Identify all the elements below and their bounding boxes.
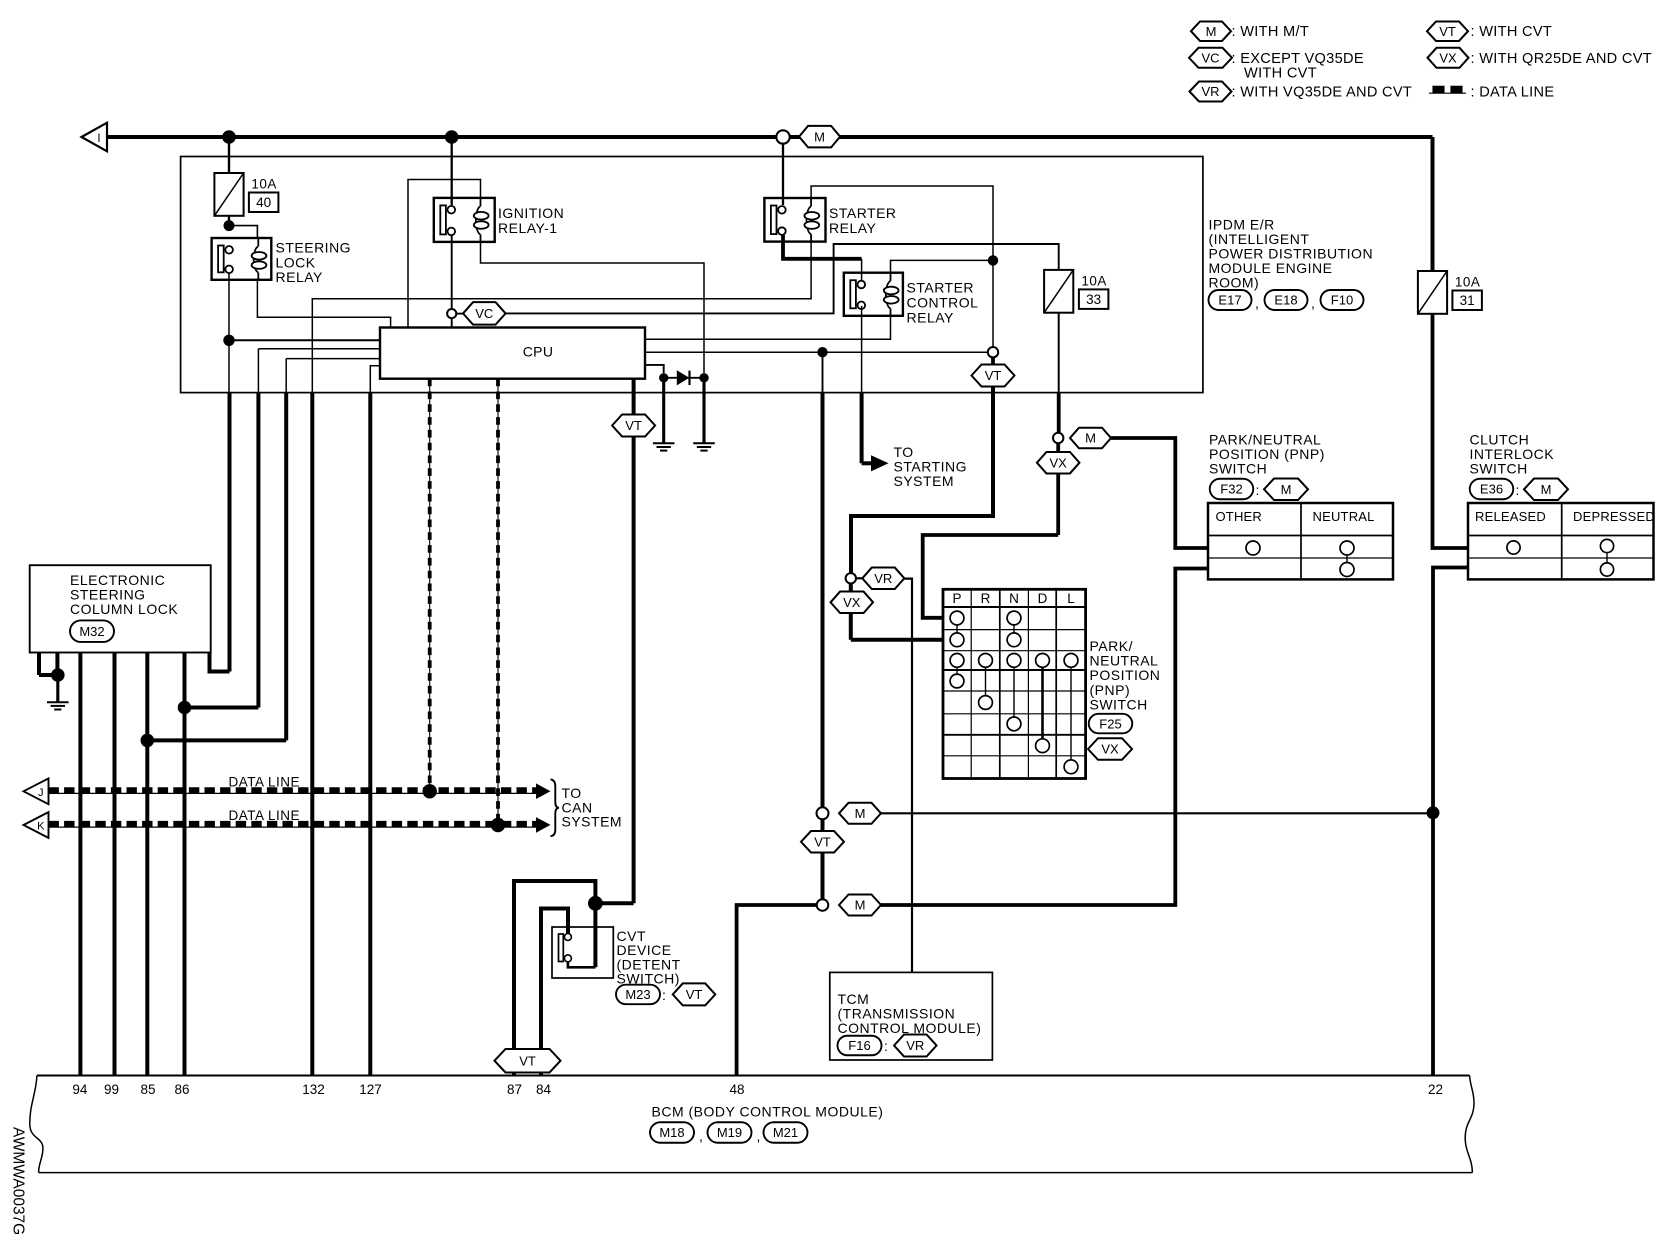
contact circle OTHER [1246,541,1260,555]
svg-text:84: 84 [536,1082,552,1097]
svg-text:RELAY: RELAY [276,269,324,285]
node: connector circle at y=905 [817,899,829,911]
wire: ESCL pin to BCM 86 [183,653,187,1076]
wire: ESCL pin to BCM 94 [78,653,82,1076]
PNP grid contact circles column P [950,611,964,625]
junction on clutch line [1427,806,1440,819]
junction on bus at fuse 40 [222,130,236,144]
wire: node A to CPU [229,339,380,341]
junction node A (SLR output / CPU) [223,335,234,346]
wire: CAN data line K (dashed) from CPU [497,379,499,825]
svg-text:M32: M32 [79,624,104,639]
svg-text:M: M [1085,431,1096,446]
PNP grid contact circles column D [1036,654,1050,668]
connector E36 [1470,479,1514,500]
svg-text:94: 94 [72,1082,88,1097]
svg-text:F10: F10 [1331,293,1353,308]
svg-text:M: M [855,806,866,821]
junction on 352 line (BCM 48 branch) [817,347,827,357]
svg-text:M18: M18 [659,1125,684,1140]
starter relay box [764,198,825,242]
wire: CPU to SCR coil bottom [645,316,891,339]
junction on K data line [491,818,505,832]
svg-text:LOCK: LOCK [276,254,316,270]
node: VT connector circle [988,347,998,357]
ground at ESCL [47,701,69,703]
ignition relay-1 contact bar [440,205,446,234]
wire: starter relay feed [782,144,784,206]
svg-text:M21: M21 [773,1125,798,1140]
wire: ESCL pin to BCM 99 [113,653,117,1076]
svg-text:33: 33 [1086,292,1101,307]
wire: CAN data line J [49,792,536,794]
svg-text:F16: F16 [848,1038,870,1053]
contact circles NEUTRAL [1340,541,1354,555]
svg-text:VT: VT [625,418,642,433]
svg-text:RELEASED: RELEASED [1475,509,1546,524]
ground at diode cathode [693,442,715,444]
svg-text:,: , [1255,295,1259,311]
svg-text:132: 132 [302,1082,325,1097]
wire: to PNP grid row 2 [851,638,943,642]
svg-text:DATA LINE: DATA LINE [229,808,301,823]
wire: M line y=905 to PNP table row 3 [881,569,1208,906]
svg-text:BCM (BODY CONTROL MODULE): BCM (BODY CONTROL MODULE) [652,1104,884,1120]
wire: node A down inside IPDM [228,340,230,392]
wire: starter relay coil bottom to BCM 132 line [312,242,811,393]
svg-text:VT: VT [985,368,1002,383]
svg-text:87: 87 [507,1082,522,1097]
connector M18 [650,1122,694,1143]
brace TO CAN SYSTEM [551,779,560,836]
svg-text:N: N [1009,591,1019,606]
svg-text:VX: VX [1050,455,1068,470]
wire: VT line from CPU bottom [632,379,636,415]
svg-text:R: R [981,591,991,606]
PNP grid contact circles column L [1064,654,1078,668]
TCM box [830,972,993,1060]
svg-text:VR: VR [874,571,892,586]
fuse 33 10A [1044,270,1073,313]
wire: branch from CPU 352 to BCM 48 chain [822,352,824,392]
connector F16 [838,1036,882,1056]
junction node CVT/VT [588,896,603,911]
wire: branch to CPU via x=258 [185,706,259,710]
tag VT for M23 [673,983,716,1005]
tag VR [862,568,904,590]
svg-text:I: I [97,133,100,145]
wire: junction up-left to BCM pin 87 [514,881,595,1076]
node: bus connector circle at starter relay [776,130,789,143]
svg-text:(PNP): (PNP) [1090,682,1131,698]
node: VC connector circle [447,309,456,318]
svg-text:WITH CVT: WITH CVT [1244,65,1317,81]
tag M branch to PNP switch [1070,428,1111,449]
svg-text:: WITH VQ35DE AND CVT: : WITH VQ35DE AND CVT [1232,85,1413,101]
wire: SCR contact down (to starting system) [861,306,863,393]
steering lock relay contact pins [225,246,233,254]
wire: clutch switch depressed to BCM 22 [1433,568,1468,1076]
svg-text:ELECTRONIC: ELECTRONIC [70,572,165,588]
wire: CPU left pin y=349 to BCM 86 branch [258,348,380,350]
PNP switch grid table [943,589,1086,778]
tag VX on fuse 33 line [1037,452,1080,474]
legend: VT = WITH CVT [1427,21,1468,41]
svg-text:M: M [1206,24,1217,39]
svg-text:SYSTEM: SYSTEM [894,473,955,489]
svg-text:127: 127 [359,1082,382,1097]
svg-text:E18: E18 [1274,293,1297,308]
starter relay coil [810,198,812,206]
wire: to ground [56,675,59,702]
svg-text:86: 86 [174,1082,189,1097]
fuse 40 10A [214,173,243,216]
svg-text:22: 22 [1428,1082,1443,1097]
svg-text:NEUTRAL: NEUTRAL [1090,653,1159,669]
svg-text:48: 48 [729,1082,744,1097]
wire: SLR output down to ESCL elbow [228,393,232,672]
tag VT at y=841 [821,819,825,831]
wire: fuse 40 to junction [228,216,230,226]
svg-text:SWITCH: SWITCH [1470,461,1528,477]
junction on BCM86 wire [178,701,192,715]
legend: M = WITH M/T [1191,21,1231,41]
node J arrow (CAN-L) [24,778,49,804]
svg-text:VC: VC [475,306,493,321]
wire: elbow to PNP grid row 1 [923,535,1058,618]
wire: fuse 33 down to connector circle [1058,313,1060,393]
wire: BCM 132 line [310,393,314,1076]
connector E17 [1209,290,1252,310]
svg-text:E36: E36 [1480,482,1503,497]
svg-text:CPU: CPU [523,344,553,360]
steering lock relay coil [257,238,259,246]
svg-text:RELAY: RELAY [829,220,877,236]
svg-text:STEERING: STEERING [70,587,146,603]
starter control relay contact bar [850,280,856,308]
wire: CAN data line K [49,826,536,828]
svg-text:M: M [814,129,825,144]
svg-text:SWITCH: SWITCH [1209,461,1267,477]
connector M21 [764,1122,808,1143]
wide tag VT over pins 87/84 [495,1049,561,1073]
wire: bus right drop to fuse 31 [1431,137,1435,271]
svg-text:,: , [757,1128,761,1144]
wire: CPU left pin y=359 to BCM 85 branch [286,358,380,360]
svg-text:DEPRESSED: DEPRESSED [1573,509,1655,524]
svg-text:40: 40 [256,195,271,210]
svg-text:DATA LINE: DATA LINE [229,774,301,789]
contact circle RELEASED [1507,541,1520,554]
starter control relay coil [890,273,892,281]
svg-text::: : [1256,482,1260,498]
wire: BCM pin 84 to CVT detent switch [541,909,568,1076]
svg-text:SYSTEM: SYSTEM [562,814,623,830]
legend: VC = EXCEPT VQ35DE WITH CVT [1189,48,1232,68]
wire: below VT tag to M node y=905 [821,853,825,900]
svg-text:VT: VT [814,834,831,849]
starter control relay box [844,273,903,316]
svg-text:VR: VR [1201,84,1219,99]
svg-text:CONTROL: CONTROL [907,295,979,311]
svg-text:F32: F32 [1220,482,1242,497]
wire: bus to ignition relay [451,137,453,205]
PNP grid contact circles column N [1007,611,1021,625]
svg-text:M19: M19 [717,1125,742,1140]
svg-text:PARK/: PARK/ [1090,638,1133,654]
wire: VR node down through VX tag to PNP grid row 2 [849,584,853,640]
wire: bus to fuse 40 [228,137,230,173]
tag VT below circle [972,365,1015,387]
wire: ignition relay contact to VC node [451,235,453,327]
ignition relay-1 coil [480,198,482,206]
node: connector circle M branch (y=813) [817,807,829,819]
connector F32 [1210,479,1254,500]
PNP grid contact circles column R [979,654,993,668]
junction on BCM85 wire [141,734,155,748]
wire: TO STARTING SYSTEM [860,393,864,464]
connector E18 [1265,290,1308,310]
svg-text:VX: VX [1439,50,1457,65]
steering lock relay box [212,238,272,280]
wire: CPU to diode anode [645,365,664,373]
svg-text:VR: VR [906,1038,924,1053]
svg-text:POSITION: POSITION [1090,667,1161,683]
wire: circle y=905 left and down to BCM pin 48 [737,905,817,1076]
starter relay contact bar [771,206,777,235]
starter relay contact pins [778,206,786,214]
wire: VC circle to tag [456,313,463,315]
wire: M branch to PNP table row 2 [1111,438,1208,548]
tag VR for TCM [894,1035,937,1057]
svg-text:99: 99 [104,1082,119,1097]
wire: ignition relay coil to CPU top [408,180,481,328]
clutch interlock switch table [1468,503,1654,579]
tag VX on VR node line [831,592,874,614]
ELECTRONIC STEERING COLUMN LOCK box M32 [30,565,211,652]
svg-text:L: L [1067,591,1075,606]
diode D1 [664,377,704,379]
svg-text:SWITCH: SWITCH [1090,696,1148,712]
contact circles DEPRESSED [1600,539,1613,552]
svg-text:J: J [38,787,44,799]
wire: ESCL pin to BCM 85 [145,653,149,1076]
svg-text:RELAY: RELAY [907,310,955,326]
tag VT below CPU [612,415,655,437]
svg-text:VX: VX [843,595,861,610]
svg-text:VT: VT [686,987,703,1002]
svg-text:: WITH QR25DE AND CVT: : WITH QR25DE AND CVT [1471,51,1652,67]
starter control relay contact pins [858,281,866,289]
wire: diode anode to ground [662,378,665,444]
IPDM E/R enclosure box [181,157,1203,393]
legend: VX = WITH QR25DE AND CVT [1428,48,1469,68]
svg-text:E17: E17 [1218,293,1241,308]
svg-text:STARTER: STARTER [829,205,897,221]
svg-text:K: K [37,821,45,833]
detent switch contacts [564,934,571,941]
tag M for E36 [1524,479,1568,501]
fuse 31 10A [1418,271,1447,314]
svg-text:D: D [1038,591,1048,606]
wire: CAN data line L (dashed) from CPU [429,379,431,792]
wire: diode cathode to ground [702,378,705,444]
wire: elbow to CVT junction [595,901,633,905]
wire: CPU pin 352 line to VT connector [645,351,988,353]
svg-text::: : [884,1038,888,1054]
tag VX for F25 [1088,738,1132,760]
svg-text:NEUTRAL: NEUTRAL [1313,509,1375,524]
svg-text:: DATA LINE: : DATA LINE [1471,85,1555,101]
junction at ESCL ground [51,668,65,682]
svg-text:M: M [855,898,866,913]
wire: fuse 31 to clutch switch released [1433,314,1469,548]
connector F10 [1321,290,1364,310]
node: VR connector circle [846,573,856,583]
PNP switch state table (OTHER/NEUTRAL) [1208,503,1393,579]
svg-text:31: 31 [1460,293,1475,308]
svg-text:RELAY-1: RELAY-1 [498,220,558,236]
svg-text:STEERING: STEERING [276,240,352,256]
ESCL ground pins [37,653,41,675]
node K arrow (CAN-K) [24,812,49,838]
svg-text:IGNITION: IGNITION [498,205,564,221]
svg-text:10A: 10A [1455,275,1481,290]
wire: VC line to fuse 33 [506,244,1059,313]
BCM (body control module) strip [37,1075,1470,1077]
svg-text:85: 85 [140,1082,155,1097]
tag VC [463,302,506,325]
connector M23 [616,985,660,1005]
wire: top power bus [107,135,1433,139]
svg-text:M: M [1281,482,1292,497]
connector M32 [70,620,114,642]
wire: starter relay contact to starter control relay [783,235,862,259]
legend: VR = WITH VQ35DE AND CVT [1190,82,1232,102]
tag M at y=813 [839,803,881,824]
svg-text::: : [662,987,666,1003]
svg-text:10A: 10A [1081,273,1107,288]
junction diode cathode [699,373,708,382]
wire: elbow to ESCL pin 7 [210,653,230,672]
junction below fuse 40 [224,220,235,231]
tag M for F32 [1264,479,1308,501]
svg-text:,: , [699,1128,703,1144]
tag M at y=905 [839,895,881,916]
svg-text:ROOM): ROOM) [1209,275,1260,291]
svg-text:COLUMN LOCK: COLUMN LOCK [70,601,178,617]
wire: SLR coil to CPU top [257,280,390,328]
wire: ignition relay coil bottom to diode line [481,242,705,373]
junction diode anode [659,373,668,382]
junction on J data line [423,784,437,798]
svg-text:STARTER: STARTER [907,280,975,296]
wire: M line to clutch interlock vertical [881,812,1433,814]
svg-text:F25: F25 [1099,716,1121,731]
wire: branch to CPU via x=286 [147,738,286,742]
svg-text:: WITH M/T: : WITH M/T [1232,24,1310,40]
svg-text:AWMWA0037G: AWMWA0037G [10,1127,27,1235]
connector M19 [708,1122,752,1143]
junction on bus at ignition relay [445,130,459,144]
svg-text:OTHER: OTHER [1216,509,1263,524]
svg-text:VT: VT [1439,24,1456,39]
svg-text:VT: VT [519,1053,536,1068]
node I arrow (power feed) [82,123,108,152]
wire: CPU left pin y=365 to BCM 127 [370,366,380,393]
CVT device (detent switch) M23 box [552,927,613,978]
node: connector circle below fuse 33 [1053,433,1063,443]
svg-text:M23: M23 [625,987,650,1002]
wire: SLR contact to junction node A [228,273,230,340]
wire: detent switch to junction [593,909,597,967]
ignition relay-1 box [434,198,495,242]
svg-text:P: P [952,591,961,606]
CPU box U1 [380,328,645,379]
wire: fuse 33 line through VX tag to PNP grid row 1 [1056,443,1060,535]
detent switch bar [559,934,564,962]
wire: SCR coil top to node B [891,260,994,272]
wire: VT line down to VR node elbow [851,387,993,574]
junction node B (starter control) [988,255,998,265]
legend: dashed symbol = DATA LINE [1429,92,1466,94]
svg-text:: WITH CVT: : WITH CVT [1471,24,1553,40]
svg-text:,: , [1311,295,1315,311]
steering lock relay contact bar [218,246,224,273]
ground at diode anode [653,442,675,444]
connector F25 [1089,714,1133,734]
tag M on bus [799,126,840,148]
svg-text:10A: 10A [251,177,277,192]
svg-text:M: M [1541,482,1552,497]
svg-text:VX: VX [1101,742,1119,757]
ignition relay-1 contact pins [448,206,456,214]
wire: starter relay coil top to starter control node [811,186,993,347]
svg-text:VC: VC [1201,50,1219,65]
wire: VR tag to TCM [904,579,912,973]
wire: junction to steering lock relay coil [229,226,257,238]
svg-text::: : [1516,482,1520,498]
